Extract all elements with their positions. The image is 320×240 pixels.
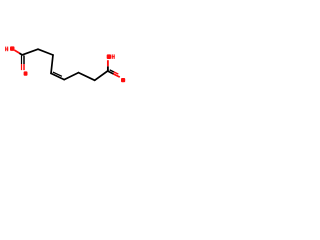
carbonyl O label (left, solid glyph) <box>24 71 28 75</box>
carbonyl O label (right, solid glyph) <box>121 78 125 82</box>
bond C8-OH red half <box>107 60 109 66</box>
bond C7-C8 <box>95 71 108 80</box>
label HO: H letter (drawn) <box>5 47 8 52</box>
double bond C8=O main line red half <box>113 74 120 77</box>
bond C1-C2 <box>22 49 38 55</box>
bond C3-C4 <box>51 55 53 73</box>
bond O-C1 (red half) <box>14 50 19 53</box>
double bond C8=O inner line black half <box>110 70 114 72</box>
bond C2-C3 <box>38 49 53 55</box>
double bond C4=C5 inner line <box>53 72 62 76</box>
double bond C1=O right line red half <box>23 64 25 70</box>
bond C6-C7 <box>79 73 95 81</box>
double bond C8=O inner line red half <box>114 72 119 74</box>
bond C8-OH black half <box>107 66 109 71</box>
double bond C1=O left line red half <box>21 64 23 70</box>
double bond C1=O right line black half <box>23 56 25 65</box>
double bond C1=O left line black half <box>21 56 23 65</box>
bond O-C1 (black half) <box>20 53 23 55</box>
label HO: O glyph (solid) <box>10 46 15 51</box>
label OH: O glyph (solid) <box>107 54 111 59</box>
bond C5-C6 <box>64 73 78 80</box>
label OH: H letter (drawn) <box>112 54 115 59</box>
double bond C4=C5 main line <box>51 73 64 79</box>
double bond C8=O main line black half <box>108 71 114 74</box>
